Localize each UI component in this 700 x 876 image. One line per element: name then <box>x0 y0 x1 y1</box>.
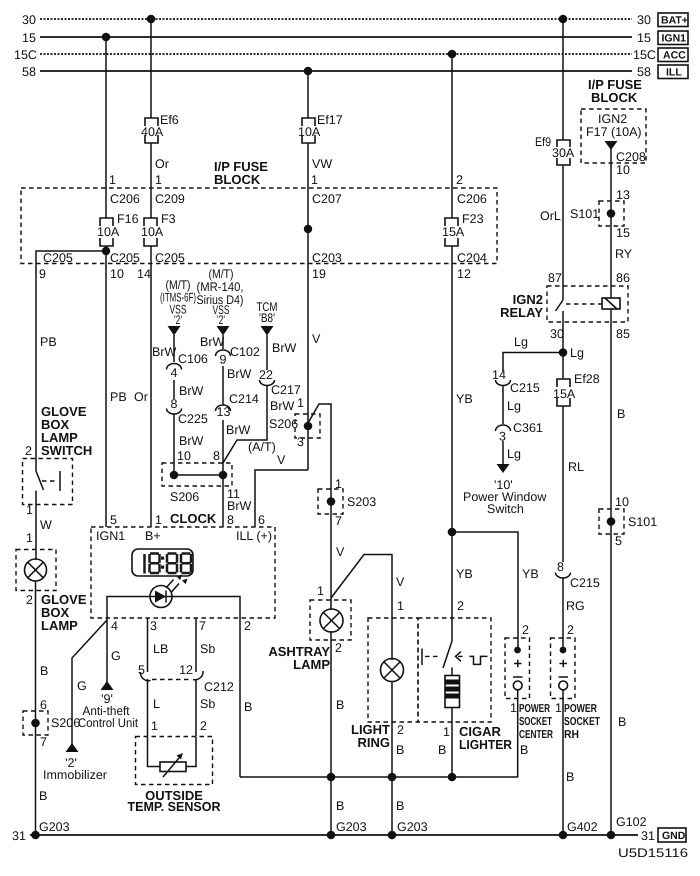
svg-text:CENTER: CENTER <box>519 729 553 741</box>
wire bus 30 (BAT+) <box>22 13 651 27</box>
svg-text:10: 10 <box>110 267 124 281</box>
fuse Ef28 15A <box>553 372 600 406</box>
svg-text:10A: 10A <box>298 125 321 139</box>
svg-text:GND: GND <box>662 830 686 842</box>
wire S206 to clock pin6 (V) <box>255 470 308 527</box>
svg-text:OrL: OrL <box>540 209 561 223</box>
svg-text:1: 1 <box>397 599 404 613</box>
svg-text:C212: C212 <box>204 680 234 694</box>
pin 9 C102 <box>216 345 260 367</box>
svg-text:Control Unit: Control Unit <box>78 716 138 730</box>
svg-text:C209: C209 <box>155 192 185 206</box>
svg-text:LAMP: LAMP <box>293 657 330 672</box>
svg-text:1: 1 <box>297 396 304 410</box>
wire cigar to subbus <box>451 708 453 778</box>
switch plunger <box>42 471 60 491</box>
svg-text:2: 2 <box>457 599 464 613</box>
fuse Ef17 10A <box>298 113 343 143</box>
svg-text:19: 19 <box>312 267 326 281</box>
svg-text:BrW: BrW <box>179 384 204 398</box>
svg-text:14: 14 <box>137 267 151 281</box>
wire branch ashtray to light ring <box>331 555 392 661</box>
wire ground subbus <box>240 776 518 778</box>
wire C209 to F3 <box>150 188 152 218</box>
thermistor <box>160 753 186 777</box>
svg-text:B: B <box>566 770 574 784</box>
svg-text:LAMP: LAMP <box>41 618 78 633</box>
fuse F16 10A <box>97 212 139 246</box>
light ring dashed box <box>368 618 418 722</box>
wire pin2 B to ground subbus <box>239 618 241 777</box>
svg-text:15C: 15C <box>633 48 656 62</box>
svg-text:PB: PB <box>40 335 57 349</box>
svg-text:B: B <box>40 664 48 678</box>
svg-text:F17 (10A): F17 (10A) <box>586 125 642 139</box>
svg-text:C206: C206 <box>457 192 487 206</box>
svg-text:V: V <box>277 453 286 467</box>
svg-text:BrW: BrW <box>226 423 251 437</box>
node (M/T) (MR-140, Sirius D4) VSS '2' <box>197 267 244 336</box>
svg-text:BrW: BrW <box>227 499 252 513</box>
svg-text:C205: C205 <box>43 251 73 265</box>
pin 14 C205 <box>137 251 185 281</box>
wire C212-5 to temp sensor <box>147 679 149 736</box>
wire Or C205-14 to clock pin1 <box>150 264 152 528</box>
svg-text:S206: S206 <box>170 490 199 504</box>
wire PB C205-10 to clock pin5 <box>105 264 107 528</box>
label OUTSIDE TEMP. SENSOR <box>128 788 222 814</box>
svg-text:3: 3 <box>297 435 304 449</box>
svg-text:14: 14 <box>492 368 506 382</box>
ashtray lamp box <box>310 600 351 640</box>
wire C207 through block <box>307 188 309 264</box>
wire dropper from 15 to C206 pin1 <box>105 37 107 188</box>
net label BAT+ <box>658 13 688 27</box>
wire S206 to clock pin8 <box>222 475 224 527</box>
svg-text:IGN2: IGN2 <box>598 112 627 126</box>
arrow to anti-theft '9' <box>101 681 114 690</box>
cigar lighter element <box>445 668 460 708</box>
svg-text:G203: G203 <box>336 820 367 834</box>
svg-text:13: 13 <box>217 405 231 419</box>
svg-text:15C: 15C <box>14 48 37 62</box>
svg-text:BrW: BrW <box>179 434 204 448</box>
svg-text:Immobilizer: Immobilizer <box>43 768 107 782</box>
net label ILL <box>658 65 688 79</box>
svg-text:Ef17: Ef17 <box>317 113 343 127</box>
wire lamp to ground <box>35 581 37 835</box>
svg-text:6: 6 <box>40 698 47 712</box>
wire relay 85 down to G102 <box>610 309 612 835</box>
svg-text:1: 1 <box>151 719 158 733</box>
socket center contacts <box>513 647 523 690</box>
svg-text:B: B <box>396 743 404 757</box>
arrow from F17 <box>605 141 618 150</box>
svg-text:12: 12 <box>457 267 471 281</box>
pin 22 C217 <box>259 368 301 397</box>
wire VSS2 to C102 <box>222 335 224 349</box>
svg-text:Or: Or <box>155 157 169 171</box>
svg-text:G: G <box>77 679 87 693</box>
svg-text:YB: YB <box>456 392 473 406</box>
svg-text:PB: PB <box>110 390 127 404</box>
svg-text:Lg: Lg <box>570 346 584 360</box>
svg-text:BrW: BrW <box>227 367 252 381</box>
clock pin 1 B+ <box>145 513 162 543</box>
wire C102 to C214 <box>222 366 224 405</box>
relay mech link dashed <box>566 303 603 305</box>
fuse F23 15A <box>442 212 484 246</box>
junction dot ground socketRH <box>559 831 568 840</box>
wire PB C205-9 to glove box switch <box>35 264 37 472</box>
pin 1 C206 <box>109 173 140 206</box>
svg-text:40A: 40A <box>141 125 164 139</box>
svg-text:9: 9 <box>39 267 46 281</box>
arrow to immobilizer '2' <box>66 743 79 752</box>
svg-text:BrW: BrW <box>272 341 297 355</box>
wire F17 to C208 <box>610 148 612 163</box>
wire socket RH to ground <box>562 690 564 835</box>
svg-text:C205: C205 <box>155 251 185 265</box>
svg-text:POWER: POWER <box>519 703 550 715</box>
svg-text:30: 30 <box>550 327 564 341</box>
svg-text:30: 30 <box>637 13 651 27</box>
wire V from C203 to S206 splice <box>307 264 309 471</box>
junction dot ground lightring <box>388 831 397 840</box>
label 31 GND <box>641 828 686 843</box>
label I/P FUSE BLOCK right <box>588 77 642 105</box>
svg-text:8: 8 <box>213 449 220 463</box>
svg-text:V: V <box>396 575 405 589</box>
wire C212-12 to temp sensor <box>195 679 197 736</box>
LED lamp symbol <box>150 575 188 608</box>
svg-text:2: 2 <box>26 593 33 607</box>
svg-text:31: 31 <box>641 829 655 843</box>
junction dot bus15/x106 <box>102 33 111 42</box>
svg-text:4: 4 <box>171 366 178 380</box>
svg-text:C215: C215 <box>570 576 600 590</box>
svg-text:RG: RG <box>566 599 585 613</box>
svg-text:1: 1 <box>317 584 324 598</box>
svg-text:S101: S101 <box>570 207 599 221</box>
junction dot C207 internal <box>304 225 312 233</box>
svg-text:1: 1 <box>443 725 450 739</box>
svg-text:C203: C203 <box>312 251 342 265</box>
pin 14 C215 <box>492 368 540 395</box>
pin 8 C225 <box>167 397 208 426</box>
svg-text:Ef9: Ef9 <box>535 135 551 149</box>
net label ACC <box>658 48 688 62</box>
wire LED internal <box>107 597 240 619</box>
svg-text:2: 2 <box>456 173 463 187</box>
svg-text:5: 5 <box>138 663 145 677</box>
svg-text:BrW: BrW <box>152 345 177 359</box>
svg-text:2: 2 <box>25 444 32 458</box>
svg-text:(MR-140,: (MR-140, <box>197 280 244 294</box>
clock dashed box <box>91 527 275 618</box>
pin 10 C205 <box>110 251 140 281</box>
label Immobilizer <box>43 756 107 782</box>
svg-text:G102: G102 <box>616 815 647 829</box>
svg-text:C207: C207 <box>312 192 342 206</box>
wire Ef9 to relay 87 <box>562 165 564 286</box>
label POWER SOCKET CENTER <box>519 703 553 741</box>
pin C208 <box>616 150 646 177</box>
junction dot subbus cigar <box>448 773 457 782</box>
arrow to power window switch <box>497 464 510 473</box>
svg-text:1: 1 <box>155 513 162 527</box>
svg-text:1: 1 <box>510 701 517 715</box>
svg-text:31: 31 <box>12 829 26 843</box>
svg-text:6: 6 <box>258 513 265 527</box>
svg-text:'B8': 'B8' <box>259 311 275 325</box>
clock pin 6 ILL (+) <box>236 513 272 543</box>
svg-text:Sb: Sb <box>200 642 215 656</box>
svg-text:Lg: Lg <box>507 447 521 461</box>
pin 12 C204 <box>457 251 487 281</box>
wire C208 to S101 <box>610 163 612 286</box>
wire F3 to C205 <box>150 246 152 264</box>
svg-text:YB: YB <box>522 567 539 581</box>
label GLOVE BOX LAMP SWITCH <box>41 404 92 458</box>
svg-text:G203: G203 <box>397 820 428 834</box>
power socket RH dashed box <box>551 638 576 699</box>
svg-text:V: V <box>336 545 345 559</box>
svg-text:POWER: POWER <box>564 703 598 715</box>
splice S203 <box>318 489 376 514</box>
svg-text:CLOCK: CLOCK <box>170 511 217 526</box>
svg-text:10A: 10A <box>97 225 120 239</box>
svg-text:B: B <box>617 407 625 421</box>
temp sensor internal wires <box>148 737 197 767</box>
svg-text:YB: YB <box>456 567 473 581</box>
wire switch to lamp <box>35 505 37 561</box>
svg-text:C214: C214 <box>229 392 259 406</box>
svg-text:8: 8 <box>171 397 178 411</box>
wire TCM to C217 <box>266 335 268 370</box>
svg-text:3: 3 <box>150 619 157 633</box>
wire light ring to ground <box>391 681 393 835</box>
svg-text:S206: S206 <box>51 716 80 730</box>
svg-text:15A: 15A <box>553 387 576 401</box>
svg-text:22: 22 <box>259 368 273 382</box>
svg-text:ILL: ILL <box>666 67 682 79</box>
svg-text:86: 86 <box>616 271 630 285</box>
ground bus 31 <box>30 834 638 836</box>
junction dot bus30/x151 <box>147 15 156 24</box>
svg-text:C204: C204 <box>457 251 487 265</box>
connector C212 <box>140 671 233 694</box>
svg-text:C208: C208 <box>616 150 646 164</box>
lamp light ring <box>381 659 404 682</box>
wire C215 to socket RH <box>562 578 564 650</box>
svg-text:U5D15116: U5D15116 <box>618 846 688 860</box>
svg-text:C217: C217 <box>271 383 301 397</box>
svg-text:RH: RH <box>564 729 579 741</box>
pin 9 C205 <box>39 251 73 281</box>
svg-text:W: W <box>40 518 52 532</box>
svg-text:2: 2 <box>244 619 251 633</box>
switch contact <box>36 471 44 505</box>
svg-text:ACC: ACC <box>663 50 686 62</box>
clock pin 5 IGN1 <box>96 513 125 543</box>
wire C106 to C225 <box>173 380 175 399</box>
svg-text:C215: C215 <box>510 381 540 395</box>
wire branch S206 to S203 <box>308 404 331 514</box>
svg-text:Switch: Switch <box>487 502 524 516</box>
wire from Ef6 to C209 pin1 <box>150 143 152 188</box>
wire pin4 to anti-theft <box>106 618 108 683</box>
wire F16 to C205 with branch <box>36 246 106 264</box>
svg-text:G402: G402 <box>567 820 598 834</box>
svg-text:B: B <box>244 700 252 714</box>
svg-text:IGN1: IGN1 <box>96 529 125 543</box>
wire YB C204-12 down <box>451 264 453 642</box>
label ASHTRAY LAMP <box>268 644 330 672</box>
wire Ef28 to C215 pin8 <box>562 406 564 562</box>
splice S206 right <box>295 414 320 438</box>
svg-text:10: 10 <box>177 449 191 463</box>
svg-text:85: 85 <box>616 327 630 341</box>
cigar lighter switch <box>422 641 488 668</box>
svg-text:C206: C206 <box>110 192 140 206</box>
svg-text:9: 9 <box>220 353 227 367</box>
svg-text:SOCKET: SOCKET <box>564 716 600 728</box>
pin 4 C106 <box>167 352 208 380</box>
junction dot bus30/x563 <box>559 15 568 24</box>
svg-text:G203: G203 <box>39 820 70 834</box>
svg-text:7: 7 <box>40 735 47 749</box>
node TCM 'B8' <box>257 300 278 336</box>
svg-text:V: V <box>312 332 321 346</box>
svg-text:2: 2 <box>567 623 574 637</box>
wire dropper from 30 to fuse Ef9 <box>562 19 564 140</box>
svg-text:SWITCH: SWITCH <box>41 443 92 458</box>
svg-text:B: B <box>438 743 446 757</box>
svg-text:ILL (+): ILL (+) <box>236 529 272 543</box>
svg-text:12: 12 <box>179 663 193 677</box>
svg-text:1: 1 <box>555 701 562 715</box>
svg-text:Lg: Lg <box>507 399 521 413</box>
label LIGHT RING <box>351 722 390 750</box>
label Anti-theft Control Unit <box>78 692 138 730</box>
svg-text:(A/T): (A/T) <box>248 440 276 454</box>
wire C214 to S206 <box>222 420 224 475</box>
relay switch contact <box>556 286 564 322</box>
svg-text:RELAY: RELAY <box>500 305 543 320</box>
svg-text:1: 1 <box>26 503 33 517</box>
junction dot ground ashtray <box>327 831 336 840</box>
pin 1 C207 <box>311 173 342 206</box>
svg-text:1: 1 <box>311 173 318 187</box>
pin 19 C203 <box>312 251 342 281</box>
wire relay 30 to Lg junction <box>562 322 564 379</box>
glove box switch dashed box <box>23 459 73 505</box>
wire socket center to subbus <box>517 690 519 777</box>
svg-text:C205: C205 <box>110 251 140 265</box>
wire dropper from 30 to fuse Ef6 <box>150 19 152 118</box>
wire bus 15C (ACC) <box>14 48 656 62</box>
splice S101 upper <box>570 201 624 226</box>
svg-text:B: B <box>520 743 528 757</box>
lamp ashtray <box>320 609 343 632</box>
svg-text:30: 30 <box>22 13 36 27</box>
label POWER SOCKET RH <box>564 703 600 741</box>
junction dot ground relay85 <box>607 831 616 840</box>
svg-text:L: L <box>153 697 160 711</box>
junction dot subbus ashtray <box>327 773 336 782</box>
wire pin4 branch to immobilizer <box>72 620 107 745</box>
svg-text:C102: C102 <box>230 345 260 359</box>
wire F23 to C204 <box>451 246 453 264</box>
junction dot ground glovebox <box>31 831 40 840</box>
svg-text:87: 87 <box>548 271 562 285</box>
svg-text:BrW: BrW <box>200 335 225 349</box>
relay coil <box>602 298 620 309</box>
svg-text:B: B <box>39 789 47 803</box>
svg-text:Or: Or <box>134 390 148 404</box>
svg-text:TEMP. SENSOR: TEMP. SENSOR <box>128 799 222 814</box>
wire dropper from 15C to C206 pin2 <box>451 54 453 188</box>
svg-text:C225: C225 <box>178 412 208 426</box>
splice S206 left <box>23 711 80 735</box>
lamp glove box <box>25 559 47 581</box>
svg-text:15: 15 <box>637 31 651 45</box>
svg-text:'2': '2' <box>174 313 182 327</box>
wire C215 to C361 <box>502 386 504 425</box>
svg-text:13: 13 <box>616 188 630 202</box>
wire pin3 LB to C212 <box>147 618 149 672</box>
label CIGAR LIGHTER <box>459 724 513 752</box>
fuse Ef6 40A <box>141 113 179 143</box>
svg-text:B+: B+ <box>145 529 161 543</box>
pin 2 C206 <box>456 173 487 206</box>
svg-text:7: 7 <box>335 514 342 528</box>
svg-text:S101: S101 <box>628 515 657 529</box>
svg-text:B: B <box>618 715 626 729</box>
svg-text:2: 2 <box>200 719 207 733</box>
svg-text:LIGHTER: LIGHTER <box>459 737 513 752</box>
svg-text:30A: 30A <box>552 146 575 160</box>
wire relay 86 <box>610 286 612 298</box>
wire S203 to ashtray <box>330 514 332 610</box>
cigar lighter dashed box <box>418 618 491 722</box>
svg-text:1: 1 <box>26 531 33 545</box>
net label IGN1 <box>658 31 688 45</box>
outside temp sensor dashed box <box>136 737 213 785</box>
svg-text:2: 2 <box>335 641 342 655</box>
label I/P FUSE BLOCK left <box>214 159 268 187</box>
svg-text:G: G <box>111 649 121 663</box>
svg-text:Ef28: Ef28 <box>574 372 600 386</box>
I/P fuse block right dashed box <box>581 109 646 163</box>
glove box lamp dashed box <box>16 550 56 591</box>
svg-text:C361: C361 <box>513 421 543 435</box>
wire YB branch to socket center <box>452 532 518 650</box>
svg-text:10A: 10A <box>141 225 164 239</box>
pin 3 C361 <box>496 421 543 444</box>
svg-text:RING: RING <box>358 735 391 750</box>
pin 1 C209 <box>155 173 185 206</box>
junction dot Lg <box>559 348 568 357</box>
clock display 18:88 <box>132 549 193 576</box>
label Power Window Switch <box>463 478 547 516</box>
svg-text:58: 58 <box>22 65 36 79</box>
svg-text:10: 10 <box>616 163 630 177</box>
wire bus 15 (IGN1) <box>22 31 651 45</box>
junction dot bus15C/x452 <box>448 50 457 59</box>
pin 13 C214 <box>216 392 259 419</box>
